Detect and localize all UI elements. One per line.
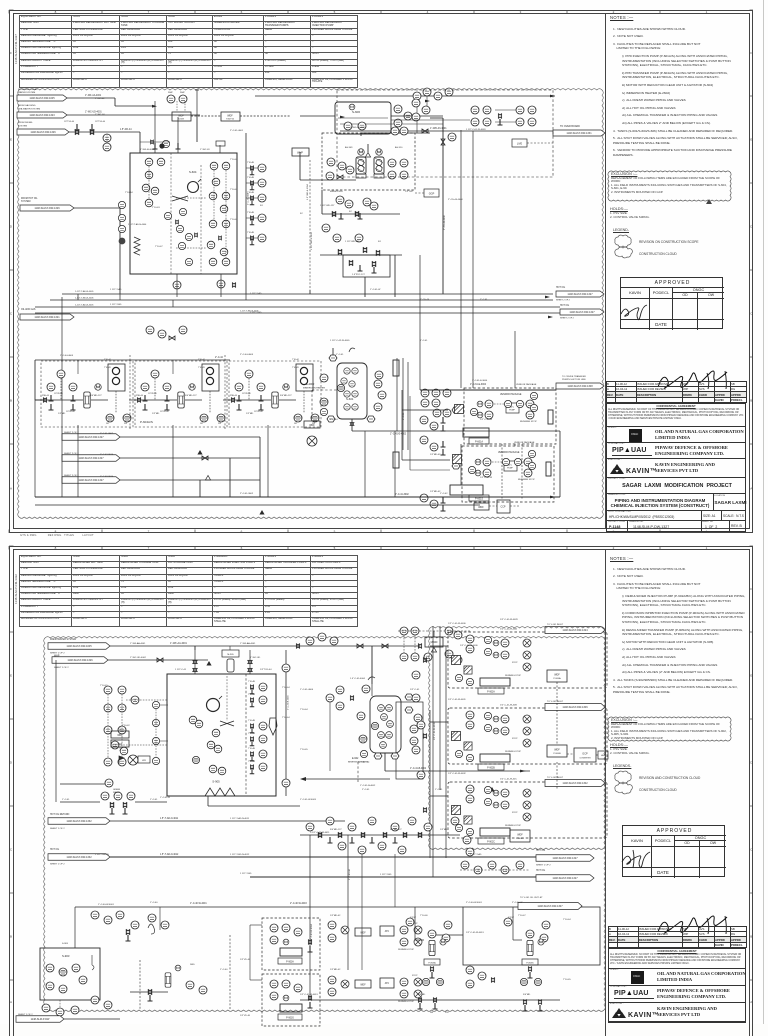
valves S-606 right — [498, 113, 502, 118]
pump P-604S — [374, 157, 384, 178]
wire hot oil inlet — [74, 207, 120, 209]
svg-text:1"-C-40: 1"-C-40 — [150, 902, 158, 904]
wire diesel line — [69, 131, 140, 133]
valve manifold bubbles row — [306, 823, 314, 831]
svg-text:1"-WF-44: 1"-WF-44 — [95, 98, 105, 100]
dashed scope box S-606 package — [337, 90, 553, 177]
svg-text:7"10-44: 7"10-44 — [563, 919, 571, 921]
svg-text:WHP: WHP — [180, 92, 185, 94]
svg-text:1148-SLM-P-DW-1326: 1148-SLM-P-DW-1326 — [34, 207, 60, 210]
wire S-601 risers right — [396, 358, 398, 431]
svg-text:1 1/2"-T-BD: 1 1/2"-T-BD — [380, 874, 392, 876]
svg-text:1 1/2"-WD-4-1004: 1 1/2"-WD-4-1004 — [311, 232, 313, 250]
svg-text:HOT OIL: HOT OIL — [556, 287, 566, 289]
svg-text:1/2"-C-41-W-40C: 1/2"-C-41-W-40C — [500, 779, 517, 781]
svg-text:1"-C-40: 1"-C-40 — [220, 969, 228, 971]
tank S-905 — [167, 674, 276, 796]
instrument bubbles S-606 right — [394, 105, 402, 113]
node WDF P-900B box — [547, 745, 567, 757]
svg-text:1/2"-C-41-W-4030: 1/2"-C-41-W-4030 — [448, 623, 466, 625]
svg-text:1/2"-C-41-W: 1/2"-C-41-W — [480, 419, 493, 421]
svg-text:1 1/2"-T-AD: 1 1/2"-T-AD — [110, 288, 122, 291]
svg-text:1/2"MD: 1/2"MD — [58, 413, 66, 415]
svg-text:7"10-47: 7"10-47 — [155, 246, 163, 248]
svg-text:1 1/2"-T-AD-N-4011: 1 1/2"-T-AD-N-4011 — [230, 817, 250, 820]
svg-text:1"-C-61: 1"-C-61 — [435, 789, 443, 791]
instrument bubbles S-606 area — [412, 99, 420, 107]
svg-text:1148-SLM-P-DW-1005: 1148-SLM-P-DW-1005 — [66, 645, 92, 648]
page 2 confidential agreement block — [608, 948, 746, 969]
wire tank right main — [245, 133, 247, 294]
svg-text:1"-WC-43: 1"-WC-43 — [200, 149, 210, 151]
svg-text:1"-WD-43-4001: 1"-WD-43-4001 — [430, 127, 447, 130]
svg-text:1 1/2"-T-AD: 1 1/2"-T-AD — [470, 853, 482, 856]
node M-900 box — [425, 637, 443, 647]
wire manifold drops — [309, 835, 311, 1000]
page 1 exclusion cloud box — [604, 167, 736, 207]
wire WHP link 2 — [240, 115, 290, 117]
wire hot oil line C — [250, 876, 536, 878]
wires left cluster dashes — [107, 694, 109, 758]
svg-text:P-900A: P-900A — [553, 677, 561, 680]
wire S-902 dashes — [357, 762, 359, 782]
vessel S-902 day tank — [370, 696, 401, 753]
svg-text:1148-SLM-P-DW-1327: 1148-SLM-P-DW-1327 — [552, 857, 578, 860]
svg-text:P-902C: P-902C — [487, 842, 495, 844]
instrument bubbles right of pumps — [388, 159, 396, 167]
construction cloud boundary p2 — [44, 637, 606, 1012]
svg-text:1"-C-44: 1"-C-44 — [330, 419, 338, 421]
node WHP 735 — [221, 112, 240, 121]
node WDF box — [304, 421, 320, 428]
svg-text:TO OVER BOARD: TO OVER BOARD — [560, 125, 580, 128]
instrument cluster left of pumps — [327, 158, 335, 166]
svg-text:WDF: WDF — [309, 424, 315, 427]
wire S-903 top line — [75, 906, 463, 908]
wire vendor dashes down — [501, 444, 503, 500]
svg-text:3/4"MD-127: 3/4"MD-127 — [390, 829, 402, 831]
manifold hanging bubbles — [338, 842, 346, 850]
top band bubbles extra — [306, 637, 314, 645]
instrument bubbles near P-905 — [406, 918, 414, 926]
svg-text:1/2"-C-41-W-4032: 1/2"-C-41-W-4032 — [448, 773, 466, 775]
tank S-604 below outlets — [173, 281, 181, 289]
instrument bubbles on overboard line — [391, 127, 399, 135]
svg-text:2"-C-41: 2"-C-41 — [362, 789, 370, 791]
instrument bubbles above S-903 — [91, 911, 99, 919]
svg-text:RUNNING STOP: RUNNING STOP — [520, 421, 537, 423]
svg-text:FRESHWATER SYSTEM: FRESHWATER SYSTEM — [50, 638, 76, 641]
svg-text:E-902: E-902 — [352, 757, 359, 760]
svg-text:1/2"MD-42: 1/2"MD-42 — [330, 915, 341, 917]
instrument cluster left mid — [146, 326, 154, 334]
wire tank bottom out — [207, 796, 209, 806]
svg-text:SHEET 1 OF 2: SHEET 1 OF 2 — [536, 865, 551, 867]
wire GGP dash link — [415, 192, 424, 194]
wire whp line 2 — [108, 659, 208, 661]
svg-text:7"10-45: 7"10-45 — [563, 979, 571, 981]
vessel S-902 top fitting — [362, 685, 370, 693]
svg-text:1"-C-41-W-4003: 1"-C-41-W-4003 — [300, 799, 317, 801]
svg-text:1 1/2"-WD-127: 1 1/2"-WD-127 — [320, 205, 335, 207]
wire pennant drops — [259, 437, 261, 497]
node WDF boxes bottom — [355, 928, 371, 936]
wire left mid link — [61, 297, 63, 340]
svg-text:S-903: S-903 — [62, 954, 70, 958]
instrument cluster left of vendor S — [420, 436, 428, 444]
svg-text:PW: PW — [445, 1012, 449, 1014]
svg-text:FO: FO — [378, 241, 381, 243]
KAVIN logo trees — [611, 463, 653, 476]
instrument bubbles S-601 right — [375, 371, 383, 379]
svg-text:RUNNING STOP: RUNNING STOP — [398, 949, 415, 951]
svg-text:8-309: 8-309 — [178, 119, 184, 121]
wire WHP link — [191, 115, 221, 117]
svg-text:PSE-44: PSE-44 — [136, 395, 144, 397]
svg-text:1-1/2"-T-AD-N-4005: 1-1/2"-T-AD-N-4005 — [75, 290, 94, 293]
wire lower links — [460, 869, 530, 871]
svg-text:2"-C-41-B-4004: 2"-C-41-B-4004 — [288, 695, 290, 710]
wire top cluster links — [398, 630, 470, 632]
legend cloud 1 — [611, 233, 731, 261]
wire loop rect bottom — [463, 907, 600, 965]
page 1 exclusion revision triangle — [706, 199, 712, 204]
cluster extra bubbles — [484, 636, 491, 643]
vendor cluster P-902C — [448, 782, 607, 838]
svg-text:1"-WC-44: 1"-WC-44 — [95, 114, 105, 116]
page 1 PIPAVAV logo row — [606, 443, 746, 459]
svg-text:2"-C-41-3002: 2"-C-41-3002 — [395, 494, 409, 496]
svg-text:PW: PW — [124, 423, 127, 425]
hexagon fittings vendor — [452, 407, 460, 413]
tank S-604 internal dashed partitions — [170, 153, 172, 274]
wire sea water drop — [196, 115, 198, 142]
wire corner pennant line — [64, 1018, 120, 1020]
wire from pennant 3 — [120, 479, 260, 481]
valve diesel 1 — [75, 129, 79, 135]
svg-text:2"-CS-44-4004: 2"-CS-44-4004 — [448, 199, 463, 201]
svg-text:S-604: S-604 — [189, 170, 197, 174]
node WHP right — [292, 148, 309, 156]
svg-text:7"10-4B: 7"10-4B — [248, 720, 256, 722]
svg-text:1148-SLM-P-DW-1323: 1148-SLM-P-DW-1323 — [29, 114, 55, 117]
pulsation dampener bars — [393, 360, 399, 376]
svg-text:P-601A: P-601A — [475, 441, 483, 444]
svg-text:1"-WF-AA-4001: 1"-WF-AA-4001 — [240, 642, 256, 645]
approval signature scribble — [619, 300, 659, 324]
valve pennant line — [202, 456, 208, 460]
svg-text:FC: FC — [349, 211, 352, 213]
page 1 outer border frame — [9, 10, 753, 533]
svg-text:M-900: M-900 — [431, 641, 438, 644]
svg-text:3/4"MD-127: 3/4"MD-127 — [330, 829, 342, 831]
page 2 outer border frame — [9, 546, 753, 1036]
page 1 legend — [613, 228, 629, 232]
page 1 document number row — [606, 511, 746, 521]
instrument bubbles vendor left column — [433, 409, 441, 417]
svg-text:HOT OIL RETURN: HOT OIL RETURN — [50, 814, 70, 816]
svg-text:7"10-47: 7"10-47 — [518, 915, 526, 917]
svg-text:7"10-44: 7"10-44 — [125, 192, 133, 194]
svg-text:1148-SLM-P-DW-1327: 1148-SLM-P-DW-1327 — [567, 293, 593, 296]
warning triangle cluster C — [489, 787, 494, 792]
svg-text:1 1/2"-C-42-W-4005: 1 1/2"-C-42-W-4005 — [330, 340, 350, 342]
svg-text:1"-C-61-E-3004: 1"-C-61-E-3004 — [470, 384, 487, 386]
page 1 KAVIN logo row — [606, 459, 746, 478]
svg-text:7"10-4B: 7"10-4B — [248, 694, 256, 696]
svg-text:PW: PW — [218, 423, 221, 425]
svg-text:1"-WD-43-4001: 1"-WD-43-4001 — [350, 127, 366, 129]
vessel S-606 — [335, 102, 391, 134]
valve above S-903 — [126, 929, 130, 935]
page 2 exclusion cloud box — [604, 713, 736, 747]
svg-text:2"-CS-44: 2"-CS-44 — [420, 299, 430, 301]
hexagon fitting top — [329, 355, 337, 361]
svg-text:1/2"-C-41-W-4031: 1/2"-C-41-W-4031 — [448, 699, 466, 701]
wire vertical main hot — [442, 118, 444, 293]
page 1 ONGC logo row — [606, 427, 746, 443]
svg-text:1 1/2"-T-BD: 1 1/2"-T-BD — [110, 304, 122, 306]
wire mid line 2 — [320, 254, 402, 256]
svg-text:7"10-44: 7"10-44 — [300, 709, 308, 711]
svg-text:RUNNING STOP: RUNNING STOP — [398, 1001, 415, 1003]
warning triangle bottom — [259, 510, 264, 515]
svg-text:GUT: GUT — [118, 744, 123, 746]
strainer hexagon S-905 — [269, 718, 277, 735]
svg-text:RUNNING STOP: RUNNING STOP — [518, 479, 535, 481]
svg-text:DRS: DRS — [190, 964, 195, 966]
svg-text:1/2"MD-42: 1/2"MD-42 — [330, 969, 341, 971]
vendor package P-601S — [462, 446, 554, 502]
svg-text:2"-C-41-3002: 2"-C-41-3002 — [240, 493, 254, 495]
page 2 vertical margin drawing number — [14, 574, 18, 604]
svg-text:VENDOR PACKAGE: VENDOR PACKAGE — [498, 451, 520, 454]
page 2 inner border frame — [13, 549, 750, 1036]
svg-text:7"10-44: 7"10-44 — [282, 687, 290, 689]
page 1 drawing number row — [606, 521, 746, 532]
valve row bottom — [418, 997, 422, 1002]
svg-text:FO: FO — [260, 205, 263, 207]
wire left cluster dashes 2 — [119, 726, 121, 731]
svg-text:FROM DIESEL: FROM DIESEL — [18, 122, 34, 124]
valve whp line — [157, 658, 163, 662]
wire manifold line — [300, 834, 460, 836]
page 1 title block column divider — [604, 13, 607, 529]
page 2 project title row (cut off) — [608, 1022, 746, 1024]
svg-text:1148-SLM-P-DW-1324: 1148-SLM-P-DW-1324 — [562, 629, 588, 632]
tank S-604 interior mid bubbles — [179, 208, 186, 215]
wire vendor down link — [460, 444, 462, 485]
wire sea water header — [67, 114, 200, 116]
svg-text:STOP: STOP — [508, 917, 514, 919]
wire S-902 bottom out — [384, 753, 386, 771]
instrument bubbles diesel — [103, 134, 111, 142]
pump P-905S — [526, 930, 534, 938]
tank S-903 — [40, 948, 100, 1000]
tank S-604 interior valves — [175, 220, 178, 225]
svg-text:P-601S: P-601S — [475, 498, 483, 501]
wire fresh water header — [67, 97, 115, 99]
svg-text:1 1/2"-T-BD-N-4012: 1 1/2"-T-BD-N-4012 — [230, 854, 250, 856]
svg-text:1"-C-40-W-4001: 1"-C-40-W-4001 — [190, 903, 207, 905]
svg-text:DR: DR — [294, 423, 297, 425]
page 1 vertical margin drawing number — [14, 34, 18, 64]
svg-text:1148-SLM-P-DW-1332: 1148-SLM-P-DW-1332 — [66, 820, 92, 823]
svg-text:735/715: 735/715 — [226, 119, 235, 121]
svg-text:1 1/2"-C-61-W-4009: 1 1/2"-C-61-W-4009 — [466, 129, 486, 131]
svg-text:1148-SLM-P-DW-1306: 1148-SLM-P-DW-1306 — [562, 706, 588, 709]
node WDF P-900A box — [547, 670, 567, 682]
wire top risers — [416, 100, 418, 133]
svg-text:E-2002: E-2002 — [306, 382, 315, 386]
svg-text:1"-C-41-E-4002: 1"-C-41-E-4002 — [390, 434, 407, 436]
vessel internals bubbles — [344, 368, 350, 374]
wire hot oil supply bus — [62, 293, 553, 295]
svg-text:SHEET 2 OF 2: SHEET 2 OF 2 — [556, 300, 571, 302]
page 1 equipment data table — [19, 15, 358, 88]
svg-text:2"-C-40-W-4001: 2"-C-40-W-4001 — [466, 902, 483, 904]
wire skid suction header — [35, 399, 45, 401]
tank S-604 — [130, 153, 237, 274]
svg-text:1148-SLM-P-DW-1327: 1148-SLM-P-DW-1327 — [78, 436, 104, 439]
svg-text:1 1/2"-T-AD: 1 1/2"-T-AD — [250, 292, 262, 295]
svg-text:DR: DR — [106, 423, 109, 425]
wire pump suctions — [415, 939, 424, 941]
svg-text:GCP: GCP — [582, 753, 588, 756]
svg-text:7"10-46: 7"10-46 — [420, 915, 428, 917]
svg-text:1"-C-40-W-4001: 1"-C-40-W-4001 — [98, 904, 115, 906]
svg-text:3/4"MD-127: 3/4"MD-127 — [90, 395, 102, 397]
page 1 diagram svg placeholder — [0, 0, 768, 540]
svg-text:1/2"VD-40: 1/2"VD-40 — [66, 411, 75, 413]
svg-text:1"-C-41-3002: 1"-C-41-3002 — [100, 433, 114, 435]
valve overboard — [422, 129, 428, 133]
wire S-606 right links — [391, 119, 470, 121]
wire left feed line — [60, 801, 100, 803]
svg-text:VENDOR PACKAGE: VENDOR PACKAGE — [516, 383, 537, 386]
pump P-601S body — [450, 485, 483, 495]
svg-text:1148-SLM-P-DW-1327: 1148-SLM-P-DW-1327 — [78, 457, 104, 460]
wire top band arrows — [425, 100, 430, 103]
svg-text:1/2"-C-41-W-40B: 1/2"-C-41-W-40B — [500, 705, 517, 707]
bubbles near day tank top — [336, 686, 344, 694]
svg-text:1"-C-61: 1"-C-61 — [403, 412, 405, 420]
ground agitator symbol — [307, 436, 317, 446]
KAVIN logo trees p2 — [613, 1007, 655, 1020]
svg-text:7"10-42: 7"10-42 — [122, 725, 130, 727]
wire mid manifold — [322, 213, 400, 215]
wire bus left risers — [34, 400, 36, 497]
svg-text:WDF: WDF — [517, 834, 523, 837]
wire vendor risers — [460, 130, 462, 388]
page 2 notes text — [610, 557, 746, 697]
svg-text:7"10-43: 7"10-43 — [104, 367, 111, 369]
svg-text:STOP: STOP — [512, 812, 518, 814]
svg-text:WATER: WATER — [113, 791, 121, 794]
svg-text:1"-C-61: 1"-C-61 — [480, 299, 488, 301]
page 2 holds — [610, 743, 650, 755]
tank S-905 bottom weir — [205, 788, 235, 796]
page 2 PIPAVAV logo row — [608, 986, 746, 1003]
node WDF box left — [111, 731, 129, 738]
frame around S-902 instruments — [396, 702, 423, 779]
pump skid P-604A — [41, 361, 133, 427]
svg-text:RUNNING STOP: RUNNING STOP — [505, 675, 522, 677]
svg-text:1"-C-41: 1"-C-41 — [336, 354, 344, 356]
dashed divider between skids — [129, 355, 131, 430]
svg-text:1"-C-61-E-3004: 1"-C-61-E-3004 — [472, 380, 488, 382]
svg-text:7"10-4B: 7"10-4B — [247, 232, 255, 234]
svg-text:1"-C-41: 1"-C-41 — [150, 799, 158, 801]
svg-text:2"-CS-44-4008: 2"-CS-44-4008 — [444, 215, 446, 230]
svg-text:WDF: WDF — [478, 506, 484, 509]
svg-text:HOT OIL: HOT OIL — [50, 849, 60, 851]
instrument bubbles below S-903 — [42, 1004, 50, 1012]
instrument bubbles top band — [413, 92, 421, 100]
valve row mid 2 — [338, 249, 342, 255]
PIPAVAV logo — [612, 447, 647, 454]
wire hot oil return bus — [35, 306, 560, 308]
wire to crude pennant — [420, 389, 556, 391]
vendor package dashed box top — [322, 133, 415, 190]
svg-text:7"10-4B: 7"10-4B — [248, 681, 256, 683]
svg-text:SHEET 1 OF 2: SHEET 1 OF 2 — [18, 1014, 33, 1016]
bubble column left of S-905 — [152, 701, 159, 708]
wire skid drop S — [172, 425, 174, 497]
node WHP top — [172, 112, 191, 121]
pump skid P-601 third — [229, 361, 321, 427]
wire skid drop T — [267, 425, 269, 497]
page 2 ONGC logo row — [608, 969, 746, 986]
svg-text:1148-SLM-P-DW-1332: 1148-SLM-P-DW-1332 — [66, 856, 92, 859]
svg-text:7"10-4B: 7"10-4B — [247, 162, 255, 164]
page 2 equipment data table — [19, 555, 358, 627]
svg-text:S-606: S-606 — [352, 110, 360, 114]
svg-text:1/2"-WC: 1/2"-WC — [405, 191, 414, 193]
instrument bubbles S-902 left — [357, 712, 365, 720]
wire long dashed instrument line — [309, 160, 311, 290]
svg-text:3/4"MD-127: 3/4"MD-127 — [280, 395, 292, 397]
svg-text:1"-C-41: 1"-C-41 — [62, 799, 70, 801]
svg-text:1/2"MD: 1/2"MD — [440, 829, 448, 831]
approval signature scribble p2 — [619, 846, 663, 872]
tank S-905 top fittings — [222, 650, 239, 657]
svg-text:1/2"MD: 1/2"MD — [246, 413, 254, 415]
hatched control boxes vendor — [455, 405, 464, 414]
wire pump suction — [322, 179, 356, 181]
agitator propeller S-604 — [172, 196, 188, 201]
wire hot oil line A — [110, 820, 345, 822]
svg-text:SYSTEM: SYSTEM — [21, 201, 31, 203]
svg-text:WDF: WDF — [554, 749, 560, 752]
svg-text:PSE-44: PSE-44 — [230, 395, 238, 397]
pump P-604A — [356, 157, 366, 178]
page 2 legend clouds — [611, 769, 731, 797]
wire hot oil line B — [110, 856, 558, 858]
svg-text:OIL AND GAS: OIL AND GAS — [21, 308, 36, 311]
valve S-601 out — [350, 422, 355, 425]
instrument bubbles left cluster p2 — [104, 686, 112, 694]
svg-text:7"10-41: 7"10-41 — [100, 685, 108, 687]
svg-text:3/4"MD-127: 3/4"MD-127 — [185, 395, 197, 397]
svg-text:1148-SLM-P-DW-1321: 1148-SLM-P-DW-1321 — [34, 316, 60, 319]
wire vertical mains p2 — [432, 626, 434, 858]
wire drop to bus A — [364, 277, 366, 297]
tank S-604 top connections — [154, 101, 156, 153]
svg-text:7"10-44: 7"10-44 — [292, 359, 299, 361]
svg-text:IMMERSION HEATER: IMMERSION HEATER — [303, 387, 325, 390]
svg-text:WDF: WDF — [178, 115, 184, 118]
